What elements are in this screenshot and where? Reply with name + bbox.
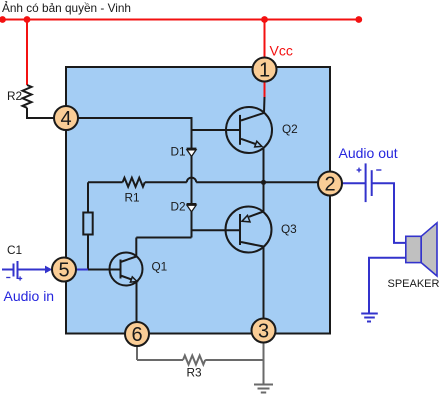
svg-text:SPEAKER: SPEAKER bbox=[388, 278, 440, 290]
svg-text:R1: R1 bbox=[125, 191, 140, 205]
svg-text:6: 6 bbox=[131, 324, 142, 346]
svg-text:Q3: Q3 bbox=[281, 222, 297, 236]
svg-text:Vcc: Vcc bbox=[270, 42, 293, 58]
svg-text:1: 1 bbox=[259, 60, 270, 82]
svg-text:Q1: Q1 bbox=[152, 260, 168, 274]
svg-text:D2: D2 bbox=[171, 199, 186, 213]
svg-text:C1: C1 bbox=[7, 243, 22, 257]
svg-text:5: 5 bbox=[58, 260, 69, 282]
svg-text:Audio in: Audio in bbox=[4, 288, 55, 304]
svg-text:Q2: Q2 bbox=[282, 122, 298, 136]
svg-text:3: 3 bbox=[258, 321, 269, 343]
svg-text:Ảnh có bản quyền - Vinh: Ảnh có bản quyền - Vinh bbox=[2, 1, 131, 15]
svg-text:R3: R3 bbox=[187, 366, 203, 380]
svg-text:4: 4 bbox=[60, 108, 71, 130]
svg-text:R2: R2 bbox=[7, 89, 22, 103]
svg-text:D1: D1 bbox=[171, 144, 186, 158]
svg-text:2: 2 bbox=[324, 174, 335, 196]
svg-text:Audio out: Audio out bbox=[339, 145, 398, 161]
